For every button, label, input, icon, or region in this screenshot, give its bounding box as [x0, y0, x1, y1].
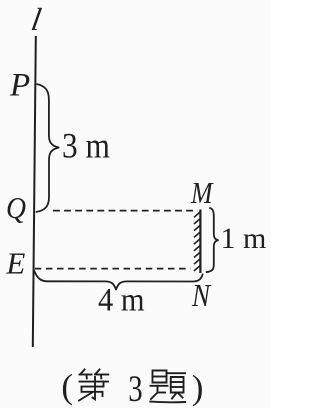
dashed line Q to M	[53, 210, 198, 212]
svg-text:): )	[192, 368, 204, 407]
brace EN (4 m)	[34, 270, 203, 289]
wall segment MN	[199, 210, 201, 274]
svg-text:E: E	[5, 246, 25, 281]
brace MN (1 m)	[206, 208, 218, 272]
svg-text:Q: Q	[6, 190, 26, 225]
svg-text:P: P	[9, 67, 30, 103]
caption character 题	[150, 371, 185, 403]
svg-text:(: (	[61, 367, 73, 406]
hatching on wall MN	[194, 212, 201, 271]
brace PQ (3 m)	[36, 84, 59, 212]
svg-text:3 m: 3 m	[62, 126, 110, 166]
svg-text:M: M	[190, 175, 214, 210]
caption character 第	[79, 370, 108, 401]
dashed line E to N	[35, 268, 191, 270]
svg-text:1 m: 1 m	[221, 222, 267, 255]
line l (vertical line)	[33, 36, 36, 347]
line l label	[29, 1, 44, 37]
svg-text:4 m: 4 m	[98, 283, 145, 319]
svg-text:3: 3	[128, 369, 142, 408]
svg-text:N: N	[191, 277, 211, 313]
